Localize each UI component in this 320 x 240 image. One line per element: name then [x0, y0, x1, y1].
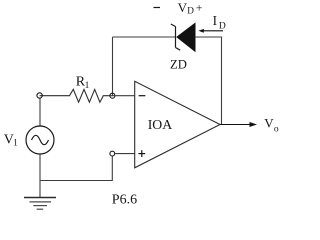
current arrow ID [198, 29, 223, 33]
svg-text:+: + [196, 3, 203, 15]
node: inverting input junction [110, 93, 115, 98]
svg-text:1: 1 [85, 81, 90, 91]
plus input symbol [138, 150, 145, 157]
label Vo [264, 115, 279, 134]
svg-text:V: V [178, 0, 188, 15]
svg-text:D: D [187, 6, 194, 16]
op-amp U1 (IOA) [135, 81, 220, 168]
label V1 [4, 133, 18, 149]
wire: terminal down to source [39, 98, 41, 126]
wire: diode output to right corner and down to op-amp output [195, 37, 222, 125]
wire: left feedback vertical [112, 37, 114, 96]
svg-text:1: 1 [13, 139, 18, 149]
label ID [213, 13, 226, 31]
node: input terminal [37, 93, 42, 98]
minus input symbol [139, 95, 146, 97]
svg-text:D: D [219, 21, 226, 31]
ground [24, 198, 56, 210]
wire: junction to inverting input [110, 95, 135, 97]
svg-text:V: V [264, 115, 274, 130]
svg-text:P6.6: P6.6 [112, 192, 137, 207]
svg-text:I: I [213, 13, 217, 28]
svg-text:IOA: IOA [148, 117, 173, 132]
resistor R1 [40, 89, 110, 102]
zener diode ZD [171, 23, 195, 51]
label R1 [76, 74, 90, 91]
wire: top feedback horizontal [113, 36, 176, 38]
source V1 [26, 126, 54, 154]
svg-text:ZD: ZD [170, 57, 187, 71]
wire: bottom return wire to noninverting node [40, 156, 112, 181]
wire: source to ground [39, 154, 41, 198]
svg-text:o: o [274, 124, 279, 134]
output wire with arrow [220, 122, 257, 127]
wire: node to plus input [115, 153, 135, 155]
node: noninverting terminal [110, 151, 115, 156]
label VD polarity (- VD +) [154, 0, 203, 16]
